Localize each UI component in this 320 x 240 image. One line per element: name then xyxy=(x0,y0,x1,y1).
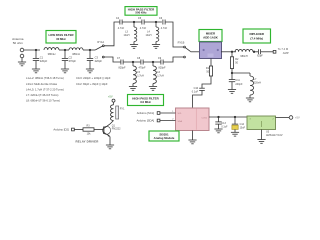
svg-text:680nH: 680nH xyxy=(240,55,248,58)
ground C11 xyxy=(228,90,236,94)
label box DIPLEXER 7.4 MHz xyxy=(243,29,271,43)
inductor L4 10uH xyxy=(146,22,159,45)
svg-text:4.7nF: 4.7nF xyxy=(118,27,125,30)
svg-text:470pF: 470pF xyxy=(69,59,77,63)
wire regulator input from +5V xyxy=(276,117,290,119)
capacitor C8 470pF xyxy=(137,57,146,70)
port Arduino [D2] xyxy=(53,128,74,132)
relay contact RY1A xyxy=(95,40,104,58)
wire R1 to C10 xyxy=(202,76,211,88)
wire L8 to C12 xyxy=(253,51,258,53)
ground C2 xyxy=(61,69,69,73)
inductor L7 220nH xyxy=(250,73,261,98)
inductor L6 1.7uH xyxy=(153,62,164,86)
svg-text:To 7.4 M: To 7.4 M xyxy=(278,47,289,51)
transistor Q1 PN2222 xyxy=(103,125,122,137)
capacitor C9 820pF xyxy=(158,57,166,70)
capacitor C13 0.1uF xyxy=(215,117,228,129)
wire mixer IF output xyxy=(221,51,236,53)
svg-text:50: 50 xyxy=(235,62,238,65)
note coil winding data column xyxy=(26,76,64,102)
ground Q1 emitter xyxy=(106,145,114,149)
svg-text:L1+L2: 380nH (T36-6 18 Turns): L1+L2: 380nH (T36-6 18 Turns) xyxy=(26,76,64,80)
svg-text:C11: C11 xyxy=(235,79,240,82)
wire antenna to LPF input xyxy=(24,49,40,51)
wire Q1 base xyxy=(94,129,103,131)
svg-text:C3: C3 xyxy=(95,55,99,59)
label box LOW PASS FILTER 30 MHz xyxy=(46,31,76,44)
inductor L1 380nH xyxy=(44,48,59,57)
ground C14 xyxy=(231,132,239,136)
wire Si5351 GND pin xyxy=(192,131,194,141)
svg-text:R3: R3 xyxy=(86,125,90,128)
svg-text:+5V: +5V xyxy=(108,94,113,98)
svg-text:RY1: RY1 xyxy=(120,107,125,110)
ground L6 xyxy=(149,87,157,91)
capacitor C4 4.7nF xyxy=(116,17,125,30)
wire C7 to C8 xyxy=(123,61,141,63)
port Arduino [SDA] xyxy=(136,119,159,123)
wire Arduino D2 to R3 xyxy=(73,129,83,131)
ground U3 xyxy=(257,140,265,144)
wire antenna shield to ground xyxy=(21,58,23,62)
wire +5V to relay coil xyxy=(113,102,115,104)
module U2 Si5351 body xyxy=(176,108,210,131)
label box MIXER ADE-1ASK xyxy=(199,30,222,42)
svg-text:4.7nF: 4.7nF xyxy=(161,27,168,30)
svg-text:820pF: 820pF xyxy=(158,67,166,70)
wire Q1 emitter to ground xyxy=(109,137,111,145)
capacitor C6 4.7nF xyxy=(159,17,168,30)
svg-text:500 KHz: 500 KHz xyxy=(135,11,147,15)
ground L7 xyxy=(246,98,254,102)
node HPF1 junction b xyxy=(155,21,157,23)
svg-text:380nH: 380nH xyxy=(48,52,56,56)
wire C8 to C9 xyxy=(143,61,161,63)
svg-text:4.7nF: 4.7nF xyxy=(140,27,147,30)
resistor R1 50 xyxy=(206,66,213,76)
wire C10 to Si5351 CLK0 xyxy=(193,90,203,108)
wire RY1A upper contact to HPF1 xyxy=(104,22,120,46)
antenna terminal J1 (signal) xyxy=(20,48,24,52)
label box HIGH PASS FILTER 500 KHz xyxy=(125,7,157,16)
inductor L8 680nH xyxy=(235,49,255,57)
mixer U1 ADE-1 body xyxy=(200,42,222,59)
capacitor C12 62pF xyxy=(257,49,263,57)
svg-text:ADE-1ASK: ADE-1ASK xyxy=(203,36,219,40)
svg-text:U3: U3 xyxy=(266,131,270,134)
wire regulator GND pin xyxy=(261,130,263,140)
svg-text:L8: 680nH (T-36-6 10 Turns): L8: 680nH (T-36-6 10 Turns) xyxy=(26,99,60,103)
node LPF input junction xyxy=(35,49,37,51)
node power junction b xyxy=(234,116,236,118)
inductor L5 1.7uH xyxy=(133,62,144,86)
svg-text:1.7uH: 1.7uH xyxy=(137,75,144,78)
node +5V relay supply label xyxy=(108,94,113,98)
node LPF output junction xyxy=(89,49,91,51)
wire mixer LO pin xyxy=(210,59,212,67)
ground L4 xyxy=(152,45,160,49)
antenna terminal J1 (shield) xyxy=(20,54,24,58)
svg-text:62pF: 62pF xyxy=(257,55,263,58)
svg-text:L6: L6 xyxy=(157,71,160,74)
relay contact RY1B xyxy=(178,40,191,57)
resistor R3 10k xyxy=(83,125,94,136)
wire C5 to C6 xyxy=(144,21,162,23)
wire relay coil to Q1 collector xyxy=(104,121,113,129)
ground L5 xyxy=(129,87,137,91)
svg-text:L4: L4 xyxy=(147,31,150,34)
svg-text:220nH: 220nH xyxy=(254,82,262,85)
svg-text:0.1uF: 0.1uF xyxy=(192,91,199,94)
svg-text:10uH: 10uH xyxy=(146,34,152,37)
node HPF2 junction a xyxy=(132,61,134,63)
wire C4 to C5 xyxy=(122,21,142,23)
svg-text:L4+L5: 1.7uH (T-37-2 20 Turns): L4+L5: 1.7uH (T-37-2 20 Turns) xyxy=(26,87,64,91)
node antenna input label xyxy=(12,37,24,45)
svg-text:AMS1117-5.0V: AMS1117-5.0V xyxy=(266,134,283,137)
svg-text:10uF: 10uF xyxy=(240,127,246,130)
svg-text:1.7uH: 1.7uH xyxy=(157,75,164,78)
svg-text:C7: C7 xyxy=(117,57,121,60)
svg-text:RY1B: RY1B xyxy=(178,40,185,44)
ground C1 xyxy=(32,69,40,73)
svg-text:C1: C1 xyxy=(40,55,44,59)
svg-text:Arduino [D2]: Arduino [D2] xyxy=(53,128,69,132)
svg-text:AMP: AMP xyxy=(283,51,289,55)
wire HPF2 output to RY1B lower contact xyxy=(163,57,184,62)
capacitor C2 470pF xyxy=(62,50,77,69)
label box HIGH PASS FILTER 3.0 MHz xyxy=(128,95,164,106)
wire Arduino SCL to Si5351 xyxy=(159,111,176,113)
ground C3 xyxy=(86,69,94,73)
label U3 AMS1117-5.0V xyxy=(266,131,283,138)
wire RY1A lower contact to HPF2 xyxy=(104,57,121,62)
svg-text:RELAY DRIVER: RELAY DRIVER xyxy=(75,140,99,144)
svg-text:C1/2: 82pF + 82pF || 10pF: C1/2: 82pF + 82pF || 10pF xyxy=(76,82,108,86)
label RELAY DRIVER xyxy=(75,140,99,144)
capacitor C3 220pF xyxy=(87,50,103,69)
capacitor C14 10uF tantalum xyxy=(232,117,246,132)
svg-text:L7: 220nH (T-36-6 8 Turns): L7: 220nH (T-36-6 8 Turns) xyxy=(26,93,59,97)
resistor R2 50 xyxy=(230,52,239,73)
regulator U3 AMS1117 body xyxy=(247,116,276,130)
relay RY1 coil xyxy=(110,105,125,121)
svg-text:C1/3: 220pF + 220pF || 10pF: C1/3: 220pF + 220pF || 10pF xyxy=(76,76,111,80)
svg-text:C4: C4 xyxy=(116,17,120,20)
svg-text:L3/L4: Multi-Ferrite Choke: L3/L4: Multi-Ferrite Choke xyxy=(26,82,58,86)
node LPF mid junction xyxy=(64,49,66,51)
svg-text:Arduino [SCL]: Arduino [SCL] xyxy=(137,111,155,115)
capacitor C1 220pF xyxy=(33,50,48,69)
svg-text:L7: L7 xyxy=(254,78,257,81)
capacitor C11 240pF xyxy=(229,73,243,90)
wire Si5351 VCC to regulator xyxy=(209,116,247,118)
ground C13 xyxy=(214,129,222,133)
node power junction a xyxy=(217,116,219,118)
wire L1 to L2 xyxy=(59,49,69,51)
svg-text:220pF: 220pF xyxy=(95,59,103,63)
wire diplexer shunt node xyxy=(232,72,250,74)
capacitor C5 4.7nF xyxy=(138,17,147,30)
svg-text:220pF: 220pF xyxy=(40,59,48,63)
svg-text:C10: C10 xyxy=(194,87,199,90)
wire L2 to relay RY1A pole xyxy=(83,49,95,51)
note capacitor data column xyxy=(76,76,111,86)
svg-text:Analog Module: Analog Module xyxy=(154,136,175,140)
svg-text:RY1A: RY1A xyxy=(97,40,104,44)
svg-text:3.0 MHz: 3.0 MHz xyxy=(140,100,151,104)
node diplexer shunt junction xyxy=(231,72,233,74)
port Arduino [SCL] xyxy=(137,111,160,115)
svg-text:+5V: +5V xyxy=(295,116,300,120)
svg-text:470pF: 470pF xyxy=(138,67,146,70)
port to IF amplifier xyxy=(273,47,289,55)
svg-text:PN2222: PN2222 xyxy=(112,128,121,131)
inductor L2 380nH xyxy=(69,48,83,56)
svg-text:240pF: 240pF xyxy=(235,83,243,86)
capacitor C7 820pF xyxy=(117,57,126,70)
node HPF1 junction a xyxy=(133,21,135,23)
terminal +5V supply xyxy=(289,116,300,120)
svg-text:C13: C13 xyxy=(221,122,226,125)
svg-text:(7.4 MHz): (7.4 MHz) xyxy=(250,37,263,41)
svg-text:50 ohm: 50 ohm xyxy=(13,41,24,45)
wire HPF1 output to RY1B upper contact xyxy=(165,22,184,47)
svg-text:L3: L3 xyxy=(125,31,128,34)
svg-text:L5: L5 xyxy=(137,71,140,74)
svg-text:10k: 10k xyxy=(87,133,92,136)
wire C12 to IF output port xyxy=(261,51,273,53)
wire Arduino SDA to Si5351 xyxy=(159,119,176,121)
svg-text:C8: C8 xyxy=(137,57,141,60)
wire RY1B pole to mixer RF input xyxy=(191,51,200,53)
terminal +5V relay supply xyxy=(112,99,115,102)
svg-text:R2: R2 xyxy=(235,58,239,61)
svg-text:C5: C5 xyxy=(138,17,142,20)
capacitor C10 0.1uF xyxy=(192,87,205,94)
ground Si5351 xyxy=(188,140,196,144)
svg-text:380nH: 380nH xyxy=(72,52,80,56)
svg-text:Arduino [SDA]: Arduino [SDA] xyxy=(136,119,154,123)
ground L3 xyxy=(130,45,138,49)
svg-text:30 MHz: 30 MHz xyxy=(56,37,66,41)
svg-text:CLK0: CLK0 xyxy=(202,117,208,119)
node HPF2 junction b xyxy=(152,61,154,63)
svg-text:10uH: 10uH xyxy=(124,34,130,37)
svg-text:SDA: SDA xyxy=(178,120,183,123)
svg-text:C14: C14 xyxy=(240,123,245,126)
node mixer output junction xyxy=(231,51,233,53)
svg-text:0.1uF: 0.1uF xyxy=(221,125,228,128)
svg-text:DIPLEXER: DIPLEXER xyxy=(250,32,265,36)
inductor L3 10uH xyxy=(124,22,137,45)
svg-text:820pF: 820pF xyxy=(118,67,126,70)
ground antenna xyxy=(18,62,26,66)
svg-text:C6: C6 xyxy=(159,17,163,20)
label box SI5351 Analog Module xyxy=(149,131,179,141)
